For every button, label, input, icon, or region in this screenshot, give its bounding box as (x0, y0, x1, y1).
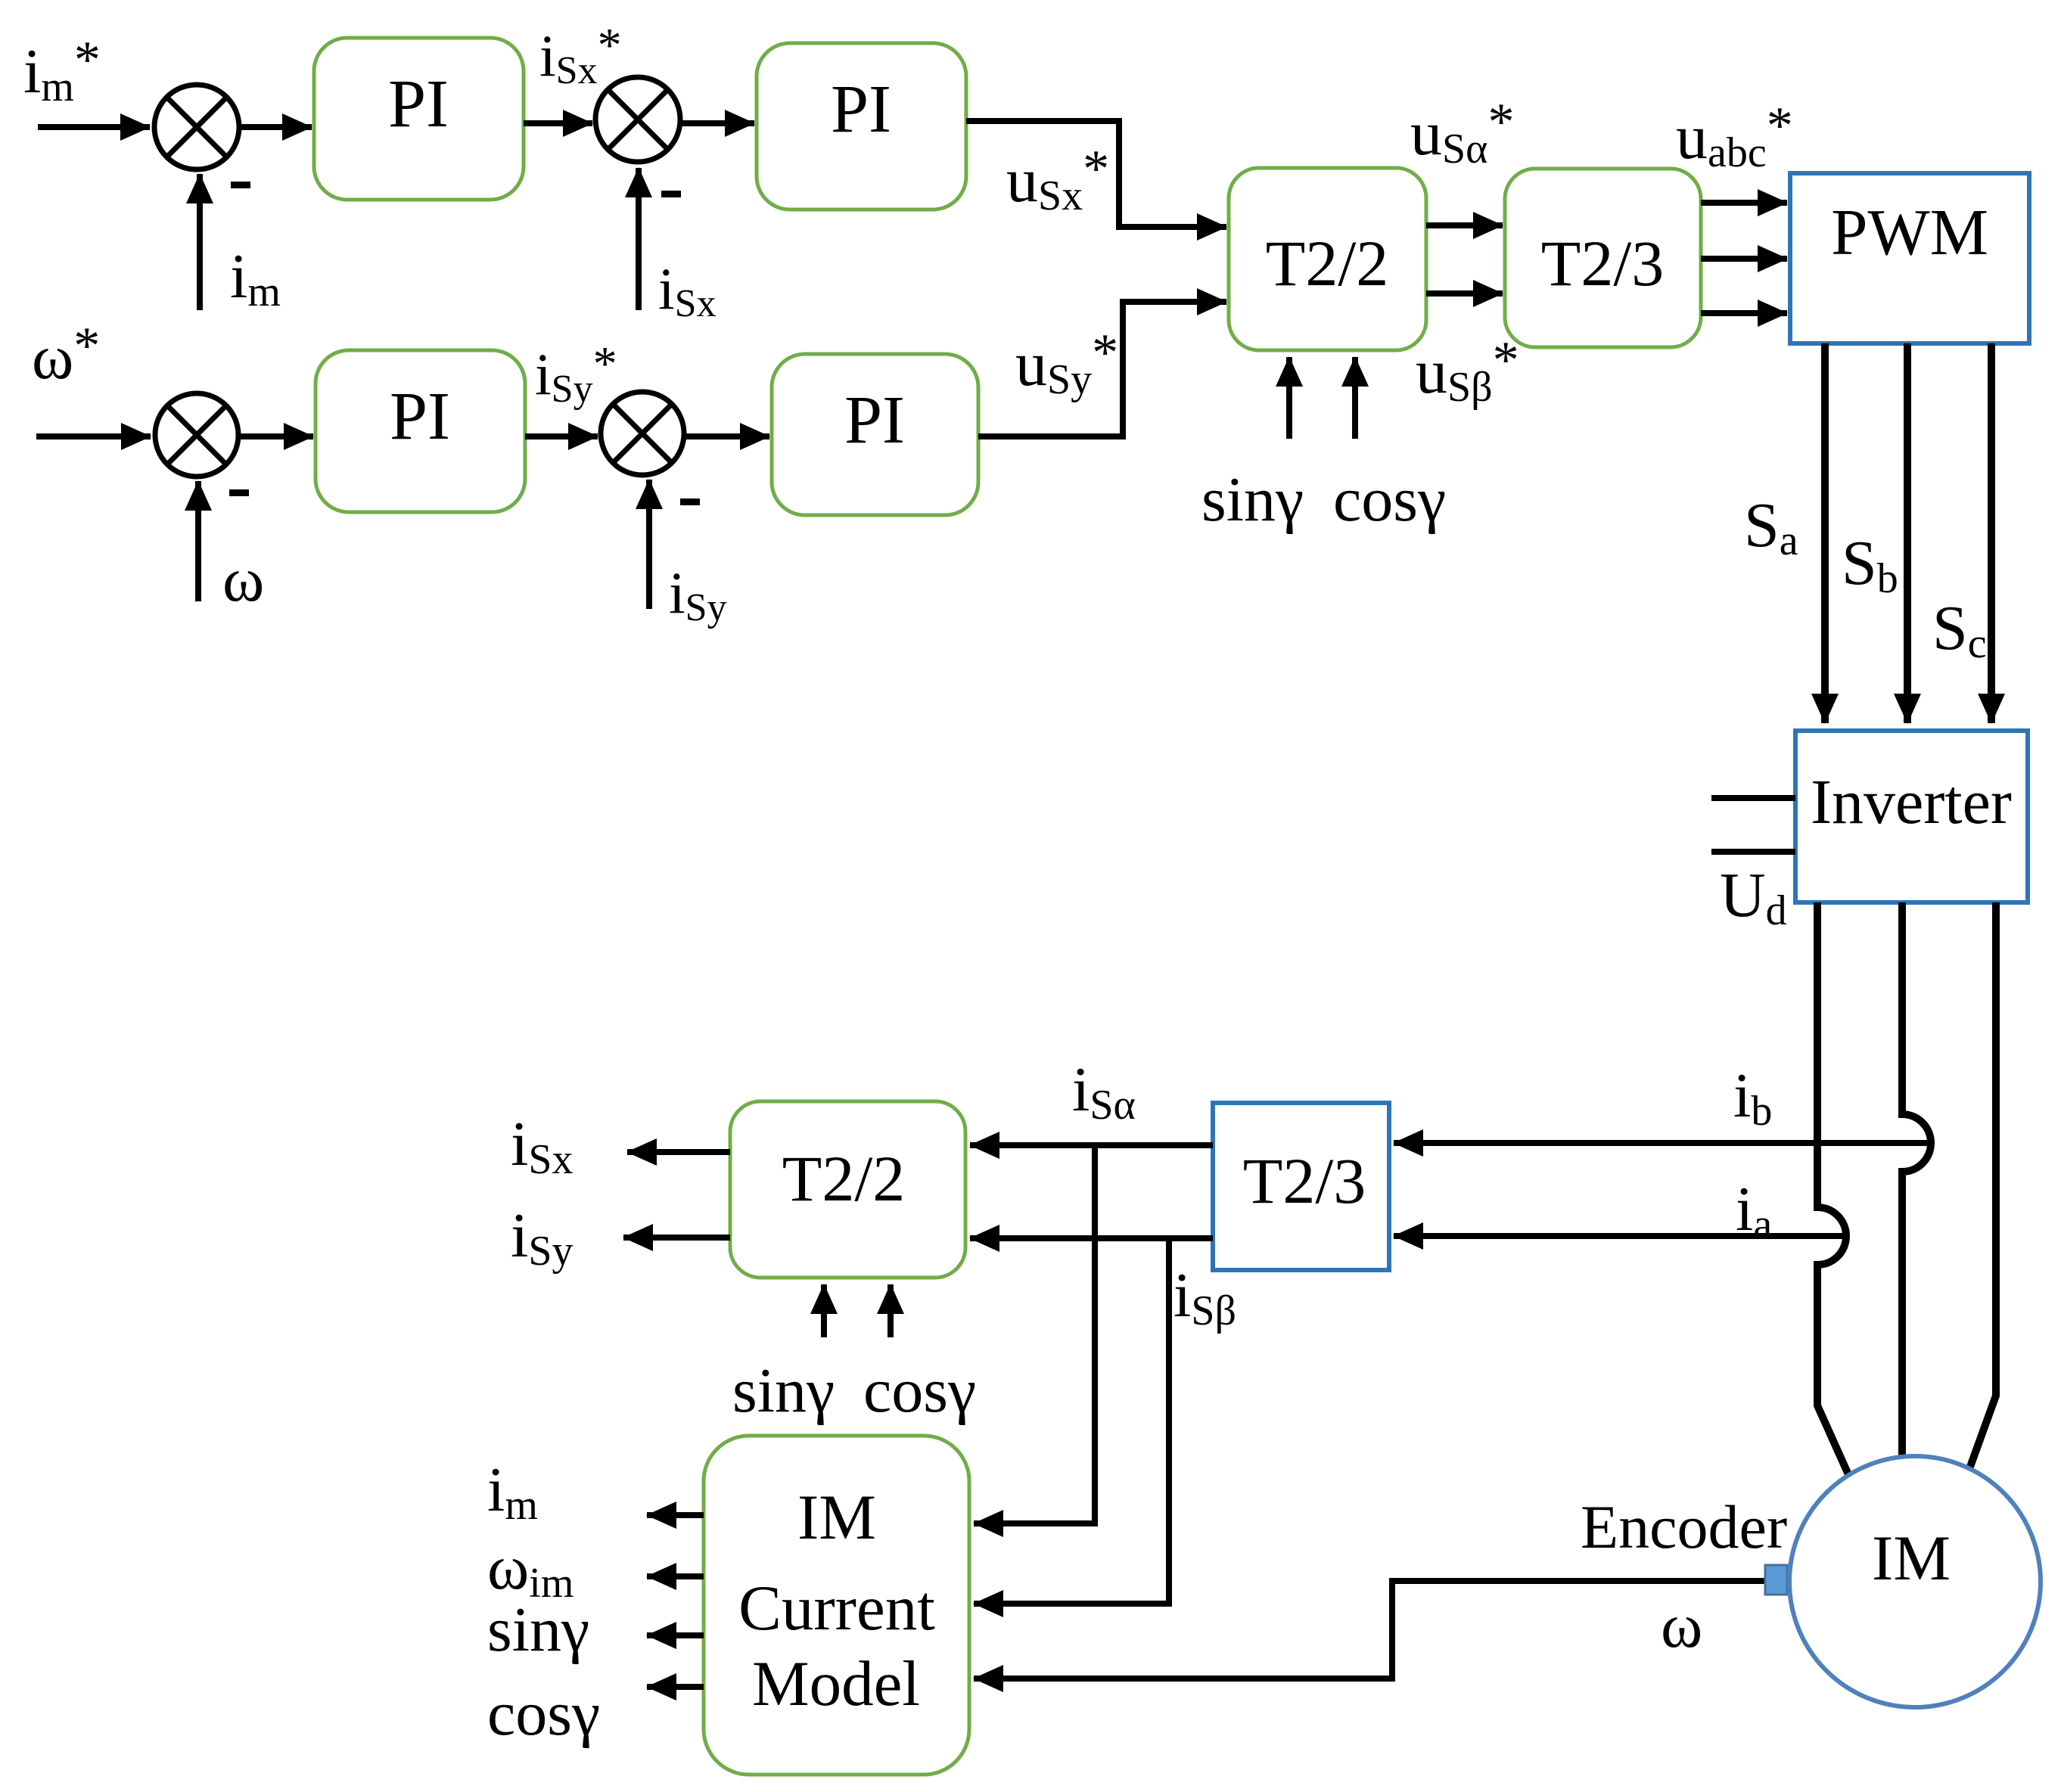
wire T2/3 to PWM c (1701, 310, 1787, 316)
block IM motor circle (1789, 1456, 2041, 1707)
node uSb* label (1416, 331, 1519, 411)
wire im* input arrow (38, 124, 150, 130)
wire DC link upper line (1711, 795, 1795, 801)
svg-text:sinγ: sinγ (732, 1356, 835, 1426)
node ib label (1733, 1061, 1772, 1135)
wire uSx* path PI2 to T2/2 (966, 121, 1226, 227)
block PI3 (316, 350, 525, 512)
wire Sa line PWM to inverter (1821, 343, 1829, 723)
node cos gamma label lower (863, 1356, 976, 1426)
node minus sign S3 (229, 489, 249, 496)
wire iSx output arrow (627, 1149, 730, 1155)
svg-text:IM: IM (797, 1482, 876, 1553)
wire iSb branch to IM current model (974, 1238, 1169, 1604)
svg-text:sinγ: sinγ (1201, 464, 1304, 535)
wire Sb line PWM to inverter (1904, 343, 1911, 723)
block PI1 (314, 38, 524, 200)
node iSx output label (511, 1109, 574, 1183)
node uSa* label (1410, 93, 1514, 172)
svg-text:T2/3: T2/3 (1541, 227, 1664, 300)
node uabc* label (1676, 97, 1793, 176)
node minus sign S2 (661, 191, 681, 197)
svg-text:cosγ: cosγ (1333, 464, 1446, 535)
svg-text:ω: ω (1661, 1591, 1702, 1661)
node iSy output label (511, 1200, 574, 1275)
svg-text:Inverter: Inverter (1811, 767, 2012, 837)
wire iSa branch to IM current model (974, 1145, 1095, 1523)
wire ib measurement to T2/3 (1394, 1140, 1928, 1146)
wire uSy* path PI4 to T2/2 (978, 302, 1226, 436)
block PWM (1790, 173, 2029, 343)
wire iSa line T2/3 to T2/2 (970, 1142, 1213, 1148)
svg-text:PI: PI (831, 72, 891, 147)
node uSx* label (1006, 140, 1109, 219)
node ia label (1736, 1174, 1772, 1248)
wire T2/3 to PWM a (1701, 200, 1787, 206)
block Inverter (1795, 731, 2028, 902)
summing junction S4 (601, 392, 684, 475)
node Encoder label (1581, 1492, 1787, 1561)
node im output label (487, 1455, 538, 1529)
wire cos gamma output arrow (647, 1684, 704, 1690)
wire omega* input arrow (36, 433, 151, 439)
node omega* label (32, 317, 100, 393)
wire PI3 to S4 (525, 433, 598, 439)
summing junction S1 (154, 85, 239, 169)
node sin gamma label lower (732, 1356, 835, 1426)
node Ud label (1720, 860, 1787, 934)
svg-text:PI: PI (388, 67, 449, 141)
wire im output arrow (647, 1512, 704, 1518)
node cos gamma output label (487, 1679, 600, 1749)
node iSb label (1173, 1260, 1236, 1334)
node minus sign S1 (231, 182, 250, 188)
svg-text:IM: IM (1872, 1523, 1951, 1594)
node Sa label (1744, 490, 1798, 564)
wire Sc line PWM to inverter (1988, 343, 1995, 723)
node iSa label (1072, 1054, 1136, 1129)
wire cos gamma up arrow lower (888, 1284, 894, 1337)
svg-text:T2/3: T2/3 (1243, 1144, 1366, 1217)
wire iSy feedback up arrow (646, 480, 652, 609)
node minus sign S4 (680, 498, 700, 505)
node im label (230, 241, 281, 315)
block T2/3 top (1505, 169, 1701, 347)
wire iSy output arrow (623, 1235, 730, 1241)
node im* label (23, 31, 101, 110)
svg-text:Model: Model (752, 1648, 920, 1719)
block T2/2 lower (730, 1101, 965, 1278)
wire S4 to PI4 (684, 433, 769, 439)
node uSy* label (1015, 324, 1118, 403)
wire motor lead c (1967, 902, 1996, 1475)
block T2/2 top (1229, 168, 1426, 350)
node iSy* label (535, 337, 617, 411)
svg-text:cosγ: cosγ (487, 1679, 600, 1749)
component encoder sensor square (1765, 1565, 1787, 1595)
wire T2/3 to PWM b (1701, 256, 1787, 262)
wire sin gamma up arrow lower (821, 1284, 827, 1337)
svg-text:sinγ: sinγ (487, 1595, 589, 1665)
node omega label (222, 545, 264, 615)
wire iSx feedback up arrow (636, 168, 642, 310)
node cos gamma label top (1333, 464, 1446, 535)
wire DC link lower line (1711, 849, 1795, 855)
svg-text:Current: Current (738, 1573, 935, 1644)
wire sin gamma up arrow top (1286, 357, 1292, 439)
node iSx label (658, 256, 717, 325)
wire im feedback up arrow (197, 174, 203, 310)
svg-text:PWM: PWM (1831, 195, 1988, 269)
svg-text:T2/2: T2/2 (1266, 227, 1388, 300)
node iSx* label (539, 18, 622, 92)
block T2/3 lower (1213, 1103, 1389, 1270)
wire S3 to PI3 (238, 433, 313, 439)
svg-text:Encoder: Encoder (1581, 1492, 1787, 1561)
node sin gamma label top (1201, 464, 1304, 535)
wire omega feedback up arrow (195, 481, 201, 601)
svg-text:cosγ: cosγ (863, 1356, 976, 1426)
node Sc label (1932, 593, 1987, 667)
node Sb label (1842, 528, 1898, 602)
block PI4 (772, 354, 978, 515)
summing junction S2 (595, 77, 680, 162)
wire sin gamma output arrow (647, 1632, 704, 1638)
wire motor lead a with sensor loop (1817, 902, 1851, 1480)
summing junction S3 (155, 393, 238, 477)
wire omega im output arrow (647, 1573, 704, 1579)
svg-text:PI: PI (844, 383, 905, 458)
node omega encoder label (1661, 1591, 1702, 1661)
block IM current model (704, 1436, 969, 1775)
wire cos gamma up arrow top (1352, 357, 1358, 439)
wire iSb line T2/3 to T2/2 (970, 1235, 1213, 1241)
node sin gamma output label (487, 1595, 589, 1665)
wire S1 to PI1 (239, 124, 312, 130)
node omega im label (487, 1533, 574, 1607)
wire motor lead b with sensor loop (1902, 902, 1931, 1456)
svg-text:PI: PI (390, 379, 450, 454)
wire PI1 to S2 (524, 120, 592, 126)
wire T2/2 to T2/3 lower (1426, 290, 1503, 297)
block PI2 (757, 43, 966, 210)
wire omega feedback from encoder (974, 1581, 1765, 1679)
wire ia measurement to T2/3 (1394, 1233, 1846, 1239)
wire T2/2 to T2/3 upper (1426, 222, 1503, 228)
node iSy label (669, 560, 727, 629)
svg-text:T2/2: T2/2 (782, 1142, 905, 1215)
wire S2 to PI2 (680, 120, 754, 126)
svg-text:ω: ω (222, 545, 264, 615)
